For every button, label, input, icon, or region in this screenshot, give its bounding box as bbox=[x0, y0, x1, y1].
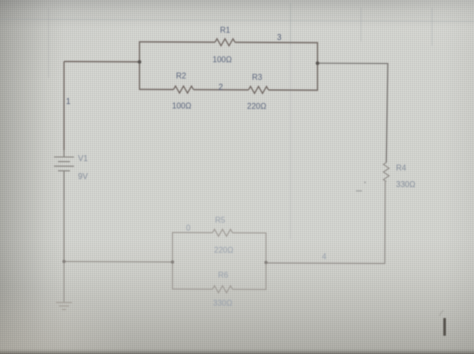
svg-text:R4: R4 bbox=[396, 164, 407, 173]
svg-text:100Ω: 100Ω bbox=[172, 102, 191, 111]
svg-text:R3: R3 bbox=[252, 73, 263, 82]
svg-text:R5: R5 bbox=[215, 216, 226, 225]
svg-text:100Ω: 100Ω bbox=[213, 55, 232, 64]
svg-text:V1: V1 bbox=[78, 154, 88, 163]
svg-text:220Ω: 220Ω bbox=[247, 102, 266, 111]
svg-text:R2: R2 bbox=[176, 72, 187, 81]
svg-text:330Ω: 330Ω bbox=[396, 180, 415, 189]
svg-text:220Ω: 220Ω bbox=[214, 246, 233, 255]
svg-text:330Ω: 330Ω bbox=[213, 299, 232, 308]
svg-text:3: 3 bbox=[277, 33, 282, 42]
svg-text:2: 2 bbox=[219, 83, 224, 92]
svg-text:9V: 9V bbox=[78, 172, 88, 181]
svg-text:0: 0 bbox=[186, 224, 191, 233]
svg-text:R6: R6 bbox=[218, 271, 229, 280]
svg-text:R1: R1 bbox=[220, 26, 231, 35]
svg-text:1: 1 bbox=[66, 97, 71, 106]
svg-text:4: 4 bbox=[322, 252, 327, 261]
